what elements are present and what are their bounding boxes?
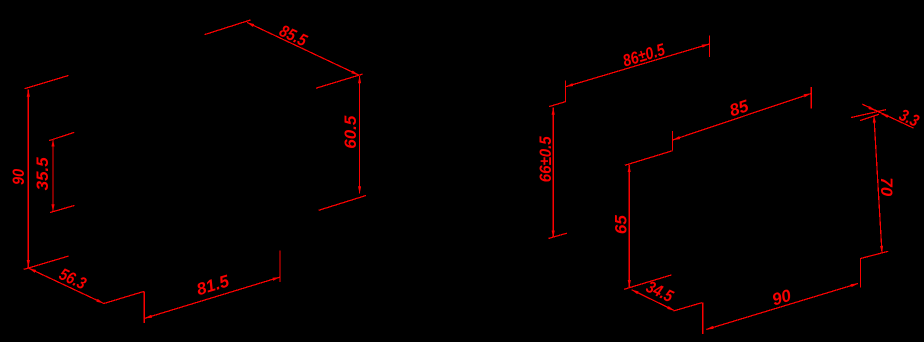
svg-text:81.5: 81.5: [194, 271, 232, 299]
svg-text:90: 90: [9, 168, 28, 184]
text 90 right view: [770, 286, 794, 310]
text 34.5: [643, 277, 676, 306]
right view: witness line 90 left: [702, 303, 704, 334]
text 81.5: [194, 271, 232, 299]
left view: extension line to 85.5 right arrow: [316, 74, 363, 88]
right view: witness line 86 left: [565, 81, 567, 102]
text 66±0.5: [536, 136, 555, 182]
left view: extension line at 35.5 top: [49, 132, 74, 140]
text 85: [727, 96, 751, 120]
svg-text:90: 90: [770, 286, 794, 310]
right view: extension line 3.3 upper: [851, 110, 886, 118]
text 60.5: [341, 115, 360, 149]
right view: extension line at 66 top: [549, 102, 566, 107]
text 65: [611, 215, 630, 234]
right view: dimension line 3.3: [862, 104, 913, 128]
right view: dimension line 90: [706, 284, 858, 330]
right view: dimension line 34.5: [632, 290, 675, 311]
text 35.5: [33, 157, 52, 191]
right view: dimension line 86±0.5: [566, 44, 709, 87]
left view: extension line at 60.5 bottom: [319, 196, 366, 211]
text 56.3: [56, 264, 89, 293]
svg-text:70: 70: [877, 177, 896, 196]
svg-text:85.5: 85.5: [276, 21, 310, 50]
left view: dimension line 56.3: [29, 268, 104, 303]
left view: extension line at 35.5 bottom: [50, 205, 75, 212]
right view: dimension line 70: [874, 115, 882, 253]
text 90 left view: [9, 168, 28, 184]
svg-text:86±0.5: 86±0.5: [620, 40, 667, 71]
text 70: [877, 177, 896, 196]
text 85.5: [276, 21, 310, 50]
left view: extension line to 85.5 left arrow: [205, 20, 251, 35]
left view: dimension line 90: [27, 90, 29, 268]
right view: witness line 90 right: [860, 258, 862, 288]
right view: arrow 3.3 lower: [881, 114, 888, 117]
left view: dimension line 35.5: [52, 139, 54, 211]
right view: extension line at 85 left: [625, 151, 673, 166]
right view: extension line 3.3 lower: [860, 114, 879, 120]
right view: dimension line 85: [673, 94, 811, 140]
svg-text:85: 85: [727, 96, 751, 120]
left view: extension line top-left: [25, 76, 69, 89]
svg-text:60.5: 60.5: [341, 115, 360, 149]
right view: extension line at 70 bottom: [861, 251, 889, 258]
right view: witness line 85 right: [810, 87, 812, 109]
left view: dimension line 81.5: [145, 277, 280, 318]
left view: witness line 81.5 left: [143, 291, 145, 323]
text 3.3: [896, 105, 922, 131]
left view: extension line at 90 bottom: [24, 256, 69, 269]
right view: witness line 86 right: [709, 35, 711, 57]
right view: extension line between 34.5 and 90: [673, 303, 701, 311]
right view: witness line 85 left: [672, 131, 674, 151]
right view: extension line at 65 bottom: [624, 275, 672, 289]
right view: arrow 3.3 upper: [869, 108, 876, 111]
svg-text:56.3: 56.3: [56, 264, 89, 293]
left view: extension line between 56.3 and 81.5: [104, 291, 145, 303]
left view: dimension line 60.5: [359, 76, 361, 194]
svg-text:35.5: 35.5: [33, 157, 52, 191]
svg-text:66±0.5: 66±0.5: [536, 136, 555, 182]
svg-text:65: 65: [611, 215, 630, 234]
svg-text:34.5: 34.5: [643, 277, 676, 306]
right view: dimension line 66±0.5: [552, 108, 554, 238]
right view: extension line at 66 bottom: [548, 233, 566, 238]
left view: witness line 81.5 right: [279, 251, 281, 283]
text 86±0.5: [620, 40, 667, 71]
svg-text:3.3: 3.3: [896, 105, 922, 131]
right view: dimension line 65: [628, 165, 630, 287]
left view: dimension line 85.5: [247, 22, 358, 75]
